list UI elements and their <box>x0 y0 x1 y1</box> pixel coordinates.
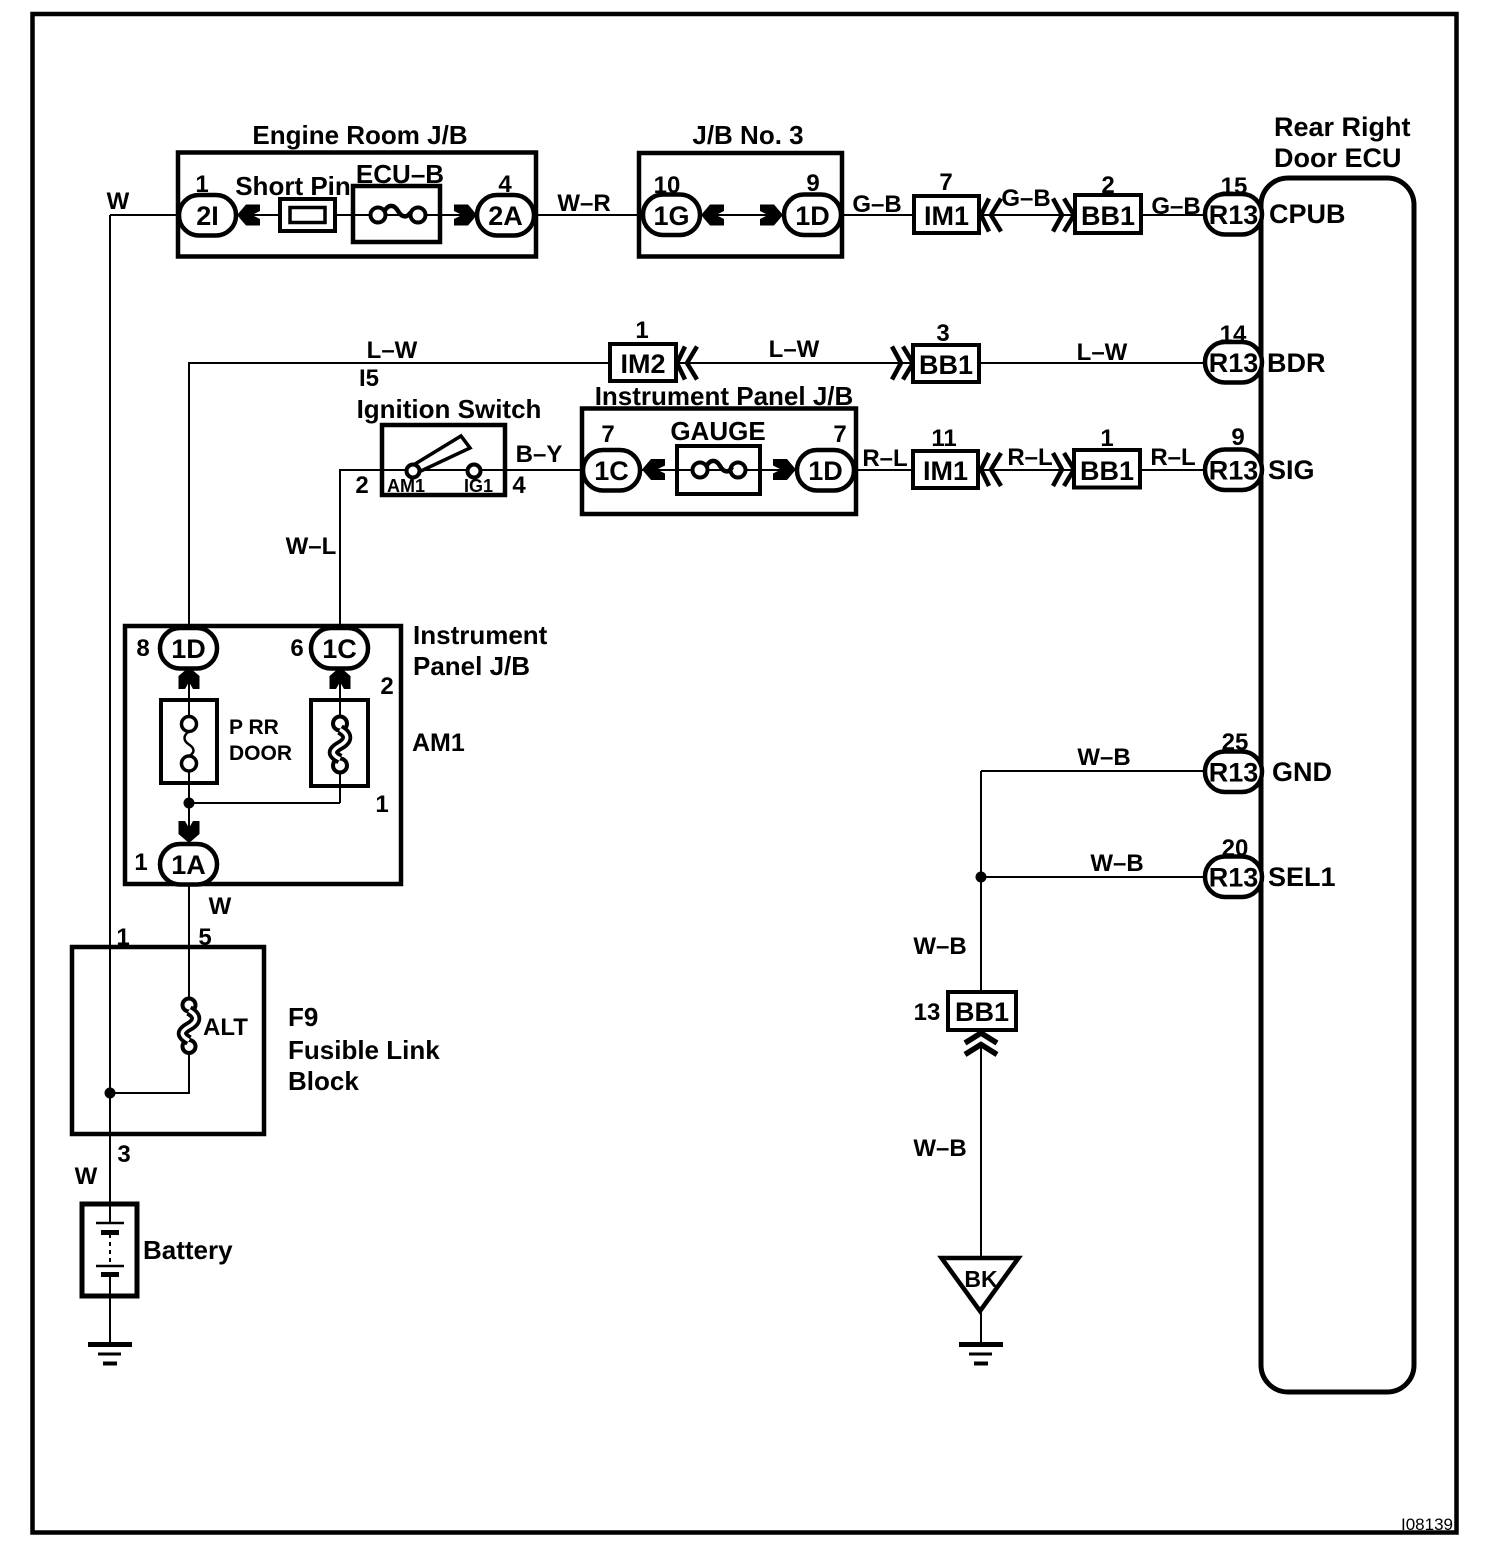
svg-text:R13: R13 <box>1209 348 1259 378</box>
ground shield BK triangle <box>942 1258 1019 1311</box>
svg-text:P RR: P RR <box>229 716 279 739</box>
arrow right into 2A <box>454 205 477 226</box>
svg-text:R13: R13 <box>1209 200 1259 230</box>
switch lever <box>415 436 470 471</box>
svg-text:7: 7 <box>601 421 614 448</box>
svg-text:G–B: G–B <box>852 191 901 218</box>
svg-text:G–B: G–B <box>1151 193 1200 220</box>
svg-text:IM2: IM2 <box>620 349 665 379</box>
wire junction horizontal in lower J/B <box>189 802 340 804</box>
wire W-B vertical branch <box>980 771 982 1030</box>
svg-text:R–L: R–L <box>1007 444 1052 471</box>
svg-text:6: 6 <box>290 635 303 662</box>
wire W-L vertical and row3 horizontal to R13 SIG <box>340 470 1205 628</box>
svg-text:1D: 1D <box>808 456 843 486</box>
svg-text:1G: 1G <box>653 201 689 231</box>
svg-text:1: 1 <box>1100 425 1113 452</box>
arrow down into 1A <box>179 821 200 843</box>
svg-text:L–W: L–W <box>367 337 418 364</box>
arrow left after 1C <box>642 459 665 480</box>
connector oval 1D pin 8 <box>160 628 217 669</box>
svg-text:7: 7 <box>939 169 952 196</box>
connector oval 1D row3 <box>797 450 854 491</box>
svg-text:8: 8 <box>136 635 149 662</box>
svg-text:2I: 2I <box>196 201 219 231</box>
junction connector BB1 <box>1075 195 1141 233</box>
junction connector IM2 <box>610 344 676 381</box>
svg-text:1: 1 <box>375 791 388 818</box>
svg-text:W–B: W–B <box>1077 744 1130 771</box>
wire BK apex to ground <box>980 1311 982 1343</box>
F9 Fusible Link Block box <box>72 947 264 1134</box>
arrow up into 1D <box>179 667 200 689</box>
svg-text:BB1: BB1 <box>955 997 1009 1027</box>
svg-text:Block: Block <box>288 1066 359 1096</box>
connector chevrons before BB1 <box>1053 199 1074 232</box>
svg-text:2: 2 <box>380 673 393 700</box>
svg-text:BB1: BB1 <box>919 350 973 380</box>
svg-text:IM1: IM1 <box>924 201 969 231</box>
connector oval R13 pin 15 <box>1205 194 1262 235</box>
connector oval 1C pin 6 <box>311 628 368 669</box>
wire fuse chain P RR DOOR vertical <box>188 668 190 884</box>
wire W-B GND horizontal <box>981 770 1205 772</box>
junction dot in lower J/B <box>184 798 195 809</box>
Instrument Panel J/B box lower left <box>125 626 401 884</box>
svg-text:R13: R13 <box>1209 863 1259 893</box>
connector chevrons before BB1 row3 <box>1053 453 1074 486</box>
connector oval 2I <box>179 195 236 236</box>
svg-text:3: 3 <box>936 320 949 347</box>
svg-text:Rear Right: Rear Right <box>1274 112 1411 142</box>
terminal AM1 <box>407 465 420 478</box>
svg-text:Engine Room J/B: Engine Room J/B <box>252 120 467 150</box>
wire L-W row2 from corner to R13 BDR <box>189 363 1205 628</box>
svg-text:SIG: SIG <box>1268 455 1315 485</box>
svg-text:1C: 1C <box>322 634 357 664</box>
terminal IG1 <box>468 465 481 478</box>
svg-text:BB1: BB1 <box>1080 456 1134 486</box>
ground below BK <box>959 1342 1003 1347</box>
svg-text:BDR: BDR <box>1267 348 1326 378</box>
svg-text:L–W: L–W <box>1077 339 1128 366</box>
connector oval R13 pin 14 <box>1205 342 1262 383</box>
ground below battery <box>88 1342 132 1347</box>
short pin component <box>280 199 335 231</box>
connector oval 1D <box>784 195 841 236</box>
Instrument Panel J/B box row3 <box>582 409 856 515</box>
svg-text:BK: BK <box>964 1266 998 1292</box>
connector chevrons after IM1 <box>981 199 1001 232</box>
junction dot W-B <box>976 872 987 883</box>
wire 1A to F9 and through ALT <box>188 884 190 1062</box>
junction connector BB1 13 <box>948 992 1016 1030</box>
svg-text:G–B: G–B <box>1001 185 1050 212</box>
svg-text:2A: 2A <box>488 201 523 231</box>
wire W left vertical down to battery <box>109 215 111 1223</box>
wire ALT bottom corner to junction <box>110 1055 189 1093</box>
svg-text:R13: R13 <box>1209 758 1259 788</box>
svg-text:1: 1 <box>635 317 648 344</box>
svg-text:B–Y: B–Y <box>516 441 563 468</box>
svg-text:CPUB: CPUB <box>1269 199 1346 229</box>
svg-text:Door ECU: Door ECU <box>1274 143 1402 173</box>
svg-text:W–B: W–B <box>913 933 966 960</box>
svg-text:11: 11 <box>931 425 956 452</box>
svg-text:1C: 1C <box>594 456 629 486</box>
junction connector IM1 row3 <box>913 451 978 488</box>
svg-text:W–B: W–B <box>1090 850 1143 877</box>
junction connector IM1 <box>914 196 979 233</box>
connector oval R13 pin 20 <box>1205 857 1262 898</box>
connector chevrons after IM1 row3 <box>981 453 1001 486</box>
svg-text:W–B: W–B <box>913 1135 966 1162</box>
connector oval 1G <box>643 195 700 236</box>
svg-text:W–L: W–L <box>286 533 337 560</box>
connector oval 2A <box>477 195 534 236</box>
fusible link AM1 <box>311 700 368 786</box>
connector oval 1A <box>160 844 217 885</box>
svg-text:R–L: R–L <box>1150 444 1195 471</box>
svg-text:Fusible Link: Fusible Link <box>288 1035 440 1065</box>
arrow right into 1D row3 <box>773 459 796 480</box>
svg-text:AM1: AM1 <box>387 476 425 496</box>
junction connector BB1 row2 <box>913 345 979 382</box>
svg-text:W: W <box>107 188 130 215</box>
svg-text:F9: F9 <box>288 1002 318 1032</box>
svg-text:SEL1: SEL1 <box>1268 862 1336 892</box>
arrow left after 2I <box>237 205 260 226</box>
svg-text:7: 7 <box>833 421 846 448</box>
wire AM1 fuse vertical to junction row <box>339 668 341 803</box>
svg-text:IG1: IG1 <box>464 476 493 496</box>
svg-text:2: 2 <box>355 472 368 499</box>
svg-text:1A: 1A <box>171 850 206 880</box>
wire below BB1 13 down to BK <box>980 1045 982 1258</box>
J/B No. 3 box <box>639 153 842 257</box>
svg-text:IM1: IM1 <box>923 456 968 486</box>
svg-text:ALT: ALT <box>203 1014 248 1041</box>
svg-text:4: 4 <box>512 472 526 499</box>
svg-text:Short Pin: Short Pin <box>235 171 351 201</box>
svg-text:J/B No. 3: J/B No. 3 <box>692 120 803 150</box>
battery <box>82 1204 137 1296</box>
svg-text:1: 1 <box>134 849 147 876</box>
svg-text:R13: R13 <box>1209 456 1259 486</box>
svg-text:BB1: BB1 <box>1081 201 1135 231</box>
svg-text:Ignition Switch: Ignition Switch <box>357 394 542 424</box>
svg-text:W: W <box>75 1163 98 1190</box>
fuse P RR DOOR <box>161 700 217 783</box>
svg-text:13: 13 <box>914 999 941 1026</box>
svg-text:R–L: R–L <box>862 445 907 472</box>
svg-text:W–R: W–R <box>557 190 610 217</box>
wire W row1 horizontal <box>110 214 1205 216</box>
arrow right into 1D <box>760 205 783 226</box>
junction dot in F9 <box>105 1088 116 1099</box>
connector chevrons after IM2 <box>677 347 697 380</box>
connector chevrons before BB1 row2 <box>892 347 913 380</box>
svg-text:I08139: I08139 <box>1401 1515 1453 1534</box>
svg-text:GAUGE: GAUGE <box>670 416 765 446</box>
arrow left after 1G <box>701 205 724 226</box>
connector oval R13 pin 9 <box>1205 450 1262 491</box>
svg-text:W: W <box>209 893 232 920</box>
svg-text:GND: GND <box>1272 757 1332 787</box>
arrow up into 1C <box>330 667 351 689</box>
Ignition Switch box <box>382 425 505 495</box>
ECU outline Rear Right Door ECU <box>1261 178 1414 1392</box>
svg-text:L–W: L–W <box>769 336 820 363</box>
svg-text:Instrument: Instrument <box>413 620 548 650</box>
wire battery bottom to ground <box>109 1275 111 1343</box>
svg-text:Instrument Panel J/B: Instrument Panel J/B <box>595 381 854 411</box>
Engine Room J/B box <box>178 153 536 257</box>
svg-text:AM1: AM1 <box>412 729 465 757</box>
connector oval R13 pin 25 <box>1205 752 1262 793</box>
svg-text:1D: 1D <box>171 634 206 664</box>
svg-text:I5: I5 <box>359 365 379 392</box>
connector oval 1C row3 <box>583 450 640 491</box>
connector chevrons below BB1 13 <box>965 1033 997 1055</box>
fusible link ALT <box>183 999 196 1012</box>
svg-text:DOOR: DOOR <box>229 742 292 765</box>
junction connector BB1 row3 <box>1074 450 1140 488</box>
wire W-B SEL1 horizontal <box>981 876 1205 878</box>
svg-text:9: 9 <box>1231 424 1244 451</box>
svg-text:Panel J/B: Panel J/B <box>413 651 530 681</box>
svg-text:Battery: Battery <box>143 1235 233 1265</box>
svg-text:1D: 1D <box>795 201 830 231</box>
svg-text:3: 3 <box>117 1141 130 1168</box>
